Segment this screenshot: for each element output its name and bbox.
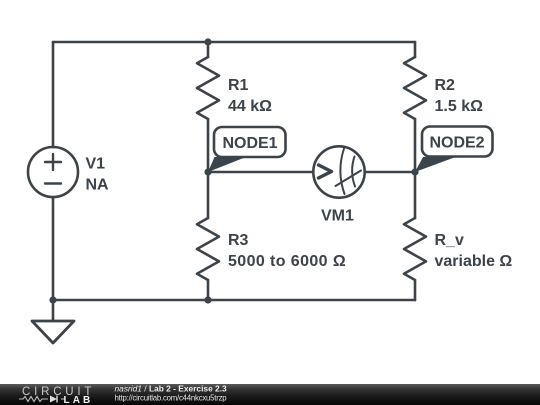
- ground: [52, 300, 55, 321]
- CircuitLab logo zigzag and diode: [19, 397, 65, 402]
- resistor R1: [197, 57, 219, 119]
- svg-text:R3: R3: [228, 232, 249, 249]
- voltmeter VM1: [313, 146, 364, 197]
- svg-text:LAB: LAB: [64, 395, 94, 405]
- svg-text:44 kΩ: 44 kΩ: [228, 98, 272, 115]
- wire left column bottom: [52, 197, 55, 300]
- svg-text:NODE2: NODE2: [429, 135, 484, 152]
- node A (NODE1 junction): [204, 168, 211, 175]
- wire middle column segments: [207, 42, 210, 300]
- wire middle rail left of voltmeter: [208, 171, 313, 174]
- node top junction: [204, 38, 211, 45]
- resistor R_v: [404, 218, 426, 280]
- svg-text:V1: V1: [86, 156, 106, 173]
- node ground junction: [49, 296, 56, 303]
- svg-text:variable Ω: variable Ω: [435, 253, 513, 270]
- wire right column segments: [414, 42, 417, 300]
- svg-text:NODE1: NODE1: [222, 135, 277, 152]
- resistor R2: [404, 57, 426, 119]
- NODE2 flag: [415, 127, 493, 173]
- svg-text:R1: R1: [228, 77, 249, 94]
- wire left column top: [52, 42, 55, 147]
- wire middle rail right of voltmeter: [365, 171, 415, 174]
- svg-text:1.5 kΩ: 1.5 kΩ: [435, 98, 484, 115]
- svg-text:VM1: VM1: [321, 208, 354, 225]
- wire top rail: [53, 41, 415, 44]
- svg-text:R_v: R_v: [435, 232, 464, 249]
- svg-text:nasrid1 / Lab 2 - Exercise 2.3: nasrid1 / Lab 2 - Exercise 2.3: [115, 384, 228, 394]
- resistor R3: [197, 218, 219, 280]
- svg-text:5000 to 6000 Ω: 5000 to 6000 Ω: [228, 253, 346, 270]
- voltage source V1: [28, 147, 78, 197]
- node junction dots: [49, 38, 418, 303]
- node bottom middle junction: [204, 296, 211, 303]
- wire bottom rail: [53, 299, 415, 302]
- svg-text:R2: R2: [435, 77, 456, 94]
- svg-text:http://circuitlab.com/c44nkcxu: http://circuitlab.com/c44nkcxu5trzp: [115, 394, 228, 403]
- svg-text:NA: NA: [86, 177, 110, 194]
- node B (NODE2 junction): [411, 168, 418, 175]
- NODE1 flag: [208, 127, 286, 172]
